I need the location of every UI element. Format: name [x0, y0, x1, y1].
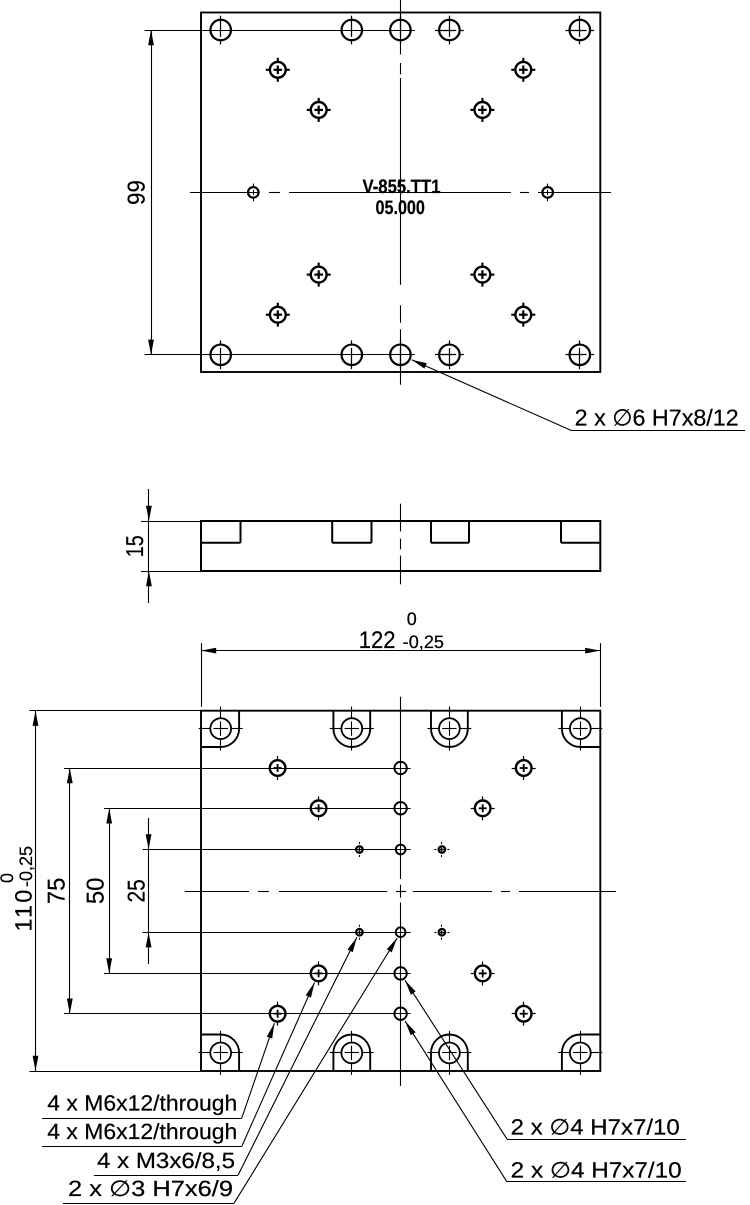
threaded hole M6 top view (318.7,274.6) — [307, 263, 331, 287]
svg-text:2 x ∅4 H7x7/10: 2 x ∅4 H7x7/10 — [511, 1157, 682, 1182]
side view centerline — [400, 504, 402, 585]
threaded hole M6 bottom view (277.6,1013.7) — [270, 1002, 286, 1026]
top view plate outline — [201, 13, 600, 373]
hole center column y=973.4 — [394, 967, 406, 979]
hole small mid-edge top view x=253.3 — [248, 184, 259, 202]
svg-text:0: 0 — [407, 609, 417, 629]
svg-text:15: 15 — [122, 535, 149, 557]
threaded hole M6 top view (482.4,109.9) — [470, 98, 494, 122]
bottom view vertical centerline — [400, 697, 402, 1086]
leader 4 to ∅3 hole — [63, 938, 397, 1204]
threaded hole M6 top view (277.8,314.7) — [266, 303, 290, 327]
hole row line y=808.3 — [104, 808, 411, 810]
svg-text:75: 75 — [44, 878, 71, 905]
threaded hole M6 top view (523.3,69.8) — [511, 58, 535, 82]
threaded hole M6 bottom view (523.7,768) — [512, 756, 536, 780]
svg-text:2 x ∅3 H7x6/9: 2 x ∅3 H7x6/9 — [68, 1176, 233, 1201]
hole ∅6 top row x=400.4 — [390, 16, 411, 45]
svg-text:25: 25 — [124, 879, 151, 902]
mid pocket hole top 1 — [330, 707, 374, 751]
hole row line y=768.0 — [64, 768, 411, 770]
bottom row hole line / extension line — [145, 354, 415, 356]
hole ∅6 top row x=220.7 — [210, 16, 231, 45]
leader line to ∅6 hole — [412, 360, 745, 431]
hole center column y=808.3 — [394, 802, 406, 814]
side view outline — [201, 521, 600, 571]
dimension 110 label — [0, 846, 36, 932]
hole row line y=849.5 — [143, 849, 411, 851]
dimension 50 line — [106, 808, 112, 973]
hole ∅6 bottom row x=449.4 — [435, 340, 464, 369]
extension line 110 top — [30, 710, 202, 712]
mid pocket hole top 2 — [427, 707, 471, 751]
hole center column y=1013.7 — [394, 1008, 406, 1020]
side view groove 3 — [431, 521, 469, 543]
threaded hole M3 bottom view (359.4,849.5) — [356, 842, 363, 857]
hole row line y=932.2 — [143, 932, 411, 934]
threaded hole M6 top view (482.4,274.6) — [470, 263, 494, 287]
svg-text:99: 99 — [124, 180, 151, 205]
dimension 99 line — [148, 30, 154, 355]
hole center column y=768.0 — [394, 762, 406, 774]
hole ∅6 bottom row x=351.8 — [342, 340, 363, 369]
hole row line y=1013.7 — [64, 1013, 411, 1015]
leader 3 to M3 hole — [94, 937, 357, 1175]
side view groove 1 — [201, 521, 241, 543]
dimension 122 line — [201, 648, 600, 654]
hole row line y=973.4 — [104, 973, 411, 975]
threaded hole M3 bottom view (441.9,849.5) — [434, 842, 449, 857]
threaded hole M6 bottom view (523.7,1013.7) — [512, 1002, 536, 1026]
bottom view plate outline — [201, 711, 600, 1071]
top view horizontal centerline — [190, 192, 611, 194]
threaded hole M6 bottom view (482.7,973.4) — [471, 961, 495, 985]
svg-text:V-855.TT1: V-855.TT1 — [363, 176, 441, 198]
threaded hole M6 bottom view (277.6,768) — [270, 756, 286, 780]
svg-text:110: 110 — [11, 887, 37, 931]
svg-text:4 x M6x12/through: 4 x M6x12/through — [47, 1119, 237, 1144]
dimension 15 extension lines — [141, 522, 201, 572]
threaded hole M6 top view (523.3,314.7) — [511, 303, 535, 327]
svg-text:-0,25: -0,25 — [403, 632, 444, 652]
side view groove 2 — [332, 521, 371, 543]
leader 5 to ∅4 hole — [405, 980, 686, 1139]
svg-text:4 x M3x6/8,5: 4 x M3x6/8,5 — [97, 1148, 235, 1173]
threaded hole M6 top view (318.7,109.9) — [307, 98, 331, 122]
svg-text:4 x M6x12/through: 4 x M6x12/through — [47, 1091, 237, 1116]
dimension 15 line — [146, 489, 152, 603]
side view groove 4 — [561, 521, 600, 543]
dimension 110 line — [33, 711, 39, 1071]
corner pocket hole top-left — [199, 707, 243, 751]
svg-text:50: 50 — [83, 878, 110, 905]
leader 6 to ∅4 hole — [405, 1021, 686, 1182]
dimension 75 line — [67, 768, 73, 1014]
dimension 25 line — [146, 818, 152, 964]
threaded hole M3 bottom view (441.9,932.2) — [434, 925, 449, 940]
threaded hole M6 top view (277.8,69.8) — [266, 58, 290, 82]
hole ∅6 top row x=579.8 — [566, 16, 595, 45]
threaded hole M6 bottom view (482.7,808.3) — [471, 796, 495, 820]
svg-text:2 x ∅4 H7x7/10: 2 x ∅4 H7x7/10 — [511, 1114, 680, 1139]
hole ∅6 bottom row x=220.7 — [210, 340, 231, 369]
threaded hole M3 bottom view (359.4,932.2) — [356, 925, 363, 940]
corner pocket hole top-right — [558, 707, 602, 751]
hole ∅6 bottom row x=400.4 — [390, 340, 411, 369]
svg-text:122: 122 — [359, 627, 396, 654]
svg-text:2 x ∅6 H7x8/12: 2 x ∅6 H7x8/12 — [575, 404, 739, 430]
corner pocket hole bottom-right — [558, 1031, 602, 1075]
dimension 122 extension lines — [202, 643, 601, 707]
extension line 110 bottom — [30, 1071, 202, 1073]
hole ∅6 top row x=351.8 — [342, 16, 363, 45]
hole center column y=849.5 — [396, 845, 406, 855]
bottom view horizontal centerline — [185, 891, 616, 893]
hole small mid-edge top view x=547.7 — [542, 184, 553, 202]
corner pocket hole bottom-left — [199, 1031, 243, 1075]
svg-text:-0,25: -0,25 — [16, 846, 36, 887]
leader 1 to M6 hole — [42, 1023, 274, 1118]
hole ∅6 bottom row x=579.8 — [566, 340, 595, 369]
hole center column y=932.2 — [396, 927, 406, 937]
svg-text:05.000: 05.000 — [376, 197, 426, 219]
mid pocket hole bottom 2 — [427, 1031, 471, 1075]
threaded hole M6 bottom view (318.6,808.3) — [311, 796, 327, 820]
dimension 122 tolerance — [403, 609, 444, 652]
top row hole line / extension line — [145, 30, 415, 32]
leader 2 to M6 hole — [42, 983, 315, 1147]
top view vertical centerline — [400, 0, 402, 385]
mid pocket hole bottom 1 — [330, 1031, 374, 1075]
hole ∅6 top row x=449.4 — [435, 16, 464, 45]
threaded hole M6 bottom view (318.6,973.4) — [311, 961, 327, 985]
svg-text:0: 0 — [0, 873, 17, 883]
